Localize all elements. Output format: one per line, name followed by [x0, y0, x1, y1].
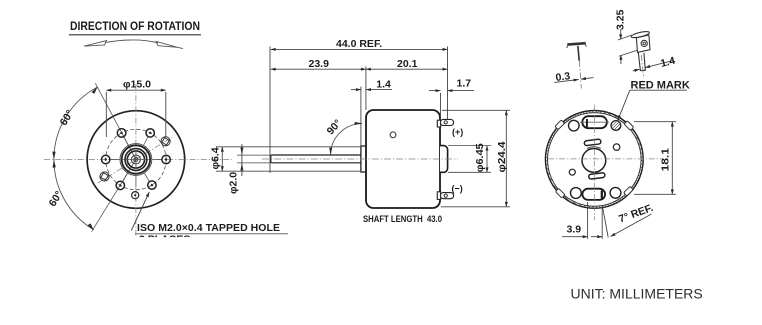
eyelet terminal detail [631, 30, 650, 70]
center hole [582, 149, 606, 173]
bottom small hole [132, 192, 139, 199]
dim 44.0 REF [271, 48, 448, 50]
dim phi24.4 [441, 110, 510, 207]
small circles rear face [569, 120, 580, 131]
bolt circle dashed [106, 129, 166, 189]
svg-text:0.3: 0.3 [555, 70, 571, 84]
svg-text:23.9: 23.9 [309, 58, 330, 70]
svg-text:7° REF.: 7° REF. [617, 202, 655, 226]
dim 3.9 [562, 236, 588, 238]
svg-text:90°: 90° [324, 117, 344, 137]
dim phi6.45 [448, 146, 491, 173]
can hole [390, 132, 396, 138]
svg-text:(−): (−) [452, 184, 463, 194]
shaft centerline [262, 158, 458, 160]
dim 18.1 [634, 122, 676, 195]
arc arrowheads [92, 86, 98, 93]
bottom ext lines + 7 deg line [588, 202, 609, 239]
90 deg arc [331, 124, 362, 155]
rear inner rim circle [548, 113, 642, 207]
svg-text:18.1: 18.1 [660, 148, 672, 172]
rim tabs [555, 120, 634, 198]
dimension phi 15.0 [106, 90, 166, 137]
diagonal centerline through square holes [98, 136, 175, 183]
rear centerlines [593, 105, 595, 221]
T terminal detail [567, 43, 586, 61]
dim phi2.0 [241, 144, 243, 176]
leader ISO tapped hole [131, 192, 149, 231]
svg-text:1.4: 1.4 [659, 55, 676, 70]
title: DIRECTION OF ROTATION [69, 19, 201, 35]
rear bump [440, 146, 448, 173]
svg-text:44.0 REF.: 44.0 REF. [336, 38, 382, 50]
svg-text:1.4: 1.4 [376, 78, 391, 90]
square hole lower left [100, 172, 109, 181]
svg-text:ISO M2.0×0.4 TAPPED HOLE: ISO M2.0×0.4 TAPPED HOLE [137, 222, 280, 234]
svg-text:φ6.45: φ6.45 [474, 143, 486, 172]
front boss [361, 146, 367, 172]
clipped 2 PLACES [139, 234, 190, 246]
rear outer circle [545, 110, 643, 208]
front view outer circle [87, 111, 185, 209]
tapped holes on bolt circle [102, 129, 171, 190]
svg-text:UNIT: MILLIMETERS: UNIT: MILLIMETERS [571, 286, 703, 302]
horizontal centerline [44, 159, 232, 161]
svg-text:SHAFT LENGTH 43.0: SHAFT LENGTH 43.0 [363, 214, 442, 224]
dim phi6.4 [216, 147, 360, 171]
svg-text:1.7: 1.7 [457, 78, 472, 90]
dim 1.4 (terminal) [633, 69, 640, 71]
svg-text:φ6.4: φ6.4 [210, 147, 222, 169]
7 deg REF leader [611, 214, 652, 237]
hub circles [120, 144, 152, 176]
svg-text:RED MARK: RED MARK [631, 79, 690, 91]
dim 0.3 [554, 80, 578, 83]
extension lines for length dims [237, 47, 448, 174]
dim 23.9 [271, 68, 366, 70]
center hole chamfer arc [587, 147, 601, 149]
bottom slot [582, 189, 605, 200]
dim 20.1 [366, 68, 448, 70]
red mark hatched circle [611, 121, 621, 131]
radial centerline 239deg [92, 160, 136, 232]
svg-text:2 PLACES: 2 PLACES [139, 234, 190, 246]
svg-text:3.25: 3.25 [615, 9, 627, 30]
motor can body [366, 110, 440, 208]
svg-text:φ24.4: φ24.4 [496, 141, 508, 172]
shaft [271, 155, 361, 163]
svg-text:φ15.0: φ15.0 [123, 78, 151, 90]
svg-text:20.1: 20.1 [397, 58, 418, 70]
svg-text:φ2.0: φ2.0 [228, 172, 240, 194]
vertical centerline [135, 84, 137, 236]
radial centerline 118deg [95, 83, 136, 159]
terminal bottom (side view) [437, 192, 440, 200]
lower arc slot [588, 173, 605, 180]
terminal top (side view) [437, 120, 440, 127]
svg-text:60°: 60° [58, 108, 77, 128]
rotation double arrow [84, 40, 183, 49]
radial spokes [109, 136, 162, 186]
rim hatch band [546, 112, 642, 208]
svg-text:3.9: 3.9 [567, 224, 582, 236]
svg-text:DIRECTION OF ROTATION: DIRECTION OF ROTATION [70, 19, 200, 33]
dim 1.7 [429, 90, 441, 92]
square hole upper right [161, 137, 170, 146]
top slot [582, 116, 607, 128]
upper arc slot [584, 139, 601, 146]
dim 1.4 [351, 89, 361, 91]
hub crosshair [127, 159, 145, 161]
svg-text:60°: 60° [47, 189, 66, 209]
60 degree arc dimension [54, 87, 98, 230]
svg-text:(+): (+) [452, 127, 463, 137]
